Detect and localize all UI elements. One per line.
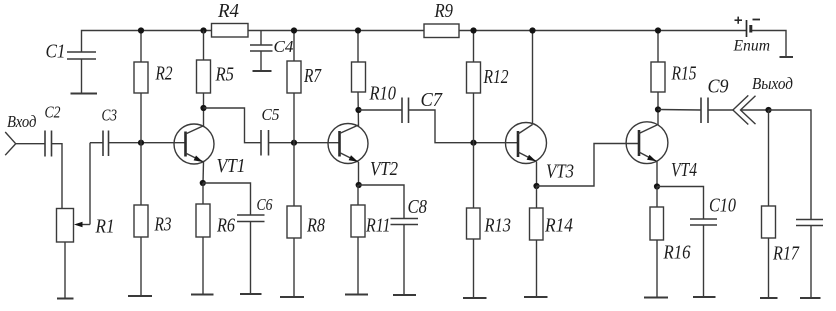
capacitor C5 xyxy=(261,105,280,156)
capacitor C3 xyxy=(102,106,118,157)
capacitor C7 xyxy=(402,89,443,123)
ground R11 xyxy=(345,294,368,296)
ground R6 xyxy=(191,294,214,296)
wire VT3 emitter to VT4 base xyxy=(537,144,640,187)
node VT3 emitter xyxy=(533,183,539,189)
resistor R15 xyxy=(651,31,697,126)
capacitor C2 xyxy=(45,103,61,157)
transistor VT4 xyxy=(626,122,697,181)
svg-text:R2: R2 xyxy=(155,63,173,85)
svg-text:C1: C1 xyxy=(46,41,66,63)
node VT4 collector xyxy=(655,106,661,112)
resistor R9 xyxy=(424,0,459,38)
wire battery to ground xyxy=(751,31,787,58)
node output connector xyxy=(733,74,793,125)
ground bar battery minus xyxy=(780,56,794,58)
wire connector to output node xyxy=(741,109,769,111)
node VT1 collector xyxy=(200,105,206,111)
wire top rail segment 2 xyxy=(248,30,424,32)
node rail R2 xyxy=(138,27,144,33)
wire output node to right capacitor xyxy=(769,110,812,220)
svg-text:R6: R6 xyxy=(216,215,235,237)
wire VT3 emitter xyxy=(536,162,538,187)
capacitor output right xyxy=(796,220,823,299)
node VT3 base xyxy=(470,140,476,146)
svg-text:R12: R12 xyxy=(483,66,509,88)
ground R16 xyxy=(644,297,668,299)
wire VT4 emitter to C10 xyxy=(657,187,704,220)
wire VT2 emitter to C8 xyxy=(359,185,404,219)
resistor R3 xyxy=(134,143,172,296)
node input terminal xyxy=(5,132,16,155)
wire C2 to R1 xyxy=(52,144,63,209)
resistor R17 xyxy=(762,110,800,298)
potentiometer R1 xyxy=(57,143,115,242)
svg-text:Eпит: Eпит xyxy=(733,38,770,55)
node VT2 base xyxy=(291,140,297,146)
resistor R11 xyxy=(351,185,391,295)
ground C6 xyxy=(240,293,262,295)
node rail R12 xyxy=(470,27,476,33)
svg-text:R15: R15 xyxy=(671,63,697,85)
wire C5 to VT2 base xyxy=(269,142,340,144)
svg-text:VT1: VT1 xyxy=(217,155,246,177)
wire VT2 emitter xyxy=(358,162,360,185)
resistor R16 xyxy=(650,187,691,298)
svg-text:R7: R7 xyxy=(303,65,322,87)
transistor VT3 xyxy=(506,123,575,183)
svg-text:R13: R13 xyxy=(484,215,511,237)
ground R13 xyxy=(463,297,487,299)
wire VT4 emitter xyxy=(656,162,658,187)
svg-text:Вход: Вход xyxy=(7,112,37,131)
resistor R2 xyxy=(134,31,173,143)
node VT1 emitter xyxy=(200,180,206,186)
wire VT2 collector to C7 xyxy=(359,109,403,111)
svg-text:C8: C8 xyxy=(408,196,428,218)
wire R1 to ground xyxy=(64,242,66,298)
svg-text:R14: R14 xyxy=(544,215,573,237)
capacitor C10 xyxy=(690,195,736,298)
resistor R13 xyxy=(467,143,512,298)
wire VT4 collector to C9 xyxy=(658,109,701,112)
node VT2 emitter xyxy=(356,182,362,188)
ground R3 xyxy=(128,295,152,297)
node rail R10 xyxy=(355,27,361,33)
svg-text:C2: C2 xyxy=(45,103,61,122)
capacitor C9 xyxy=(701,76,729,124)
capacitor C4 xyxy=(250,31,294,71)
svg-text:R8: R8 xyxy=(306,215,325,237)
ground R17 xyxy=(760,297,778,299)
resistor R14 xyxy=(530,186,574,297)
ground R14 xyxy=(524,296,548,298)
node rail R7 xyxy=(291,27,297,33)
svg-text:Выход: Выход xyxy=(752,74,793,93)
wire C3 to VT1 base xyxy=(109,142,186,144)
svg-text:R1: R1 xyxy=(95,216,115,238)
wire VT3 collector to rail xyxy=(532,31,534,125)
wire VT1 collector to C5 xyxy=(204,108,262,143)
svg-text:R16: R16 xyxy=(663,242,691,264)
resistor R5 xyxy=(197,31,235,127)
node rail R15 xyxy=(655,27,661,33)
svg-text:C3: C3 xyxy=(102,106,118,125)
ground R1 xyxy=(57,298,74,300)
svg-text:VT3: VT3 xyxy=(546,161,574,183)
transistor VT1 xyxy=(174,124,246,177)
wire VT1 emitter to C6 xyxy=(203,183,251,215)
wire VT1 emitter xyxy=(202,162,205,183)
resistor R7 xyxy=(287,31,322,143)
wire C7 to VT3 base xyxy=(409,110,519,143)
svg-text:C4: C4 xyxy=(274,37,294,56)
svg-text:R17: R17 xyxy=(772,243,800,265)
svg-text:R10: R10 xyxy=(369,83,396,105)
battery Eпит xyxy=(733,17,770,55)
svg-text:C6: C6 xyxy=(257,195,273,214)
svg-text:R9: R9 xyxy=(434,0,453,22)
resistor R8 xyxy=(287,143,325,297)
node output xyxy=(765,107,771,113)
svg-text:C10: C10 xyxy=(709,195,736,217)
node VT4 emitter xyxy=(654,183,660,189)
node VT2 collector xyxy=(355,107,361,113)
wire top rail segment 1 xyxy=(82,31,212,53)
wire input to C2 xyxy=(16,143,45,145)
capacitor C1 xyxy=(46,41,97,94)
resistor R6 xyxy=(196,183,235,295)
svg-text:C9: C9 xyxy=(708,76,729,98)
ground R8 xyxy=(280,296,304,298)
svg-text:C5: C5 xyxy=(262,105,280,124)
svg-text:R3: R3 xyxy=(154,214,172,236)
svg-text:R4: R4 xyxy=(217,0,239,22)
resistor R12 xyxy=(467,31,509,143)
node rail R5 xyxy=(200,27,206,33)
svg-text:VT4: VT4 xyxy=(671,159,697,181)
capacitor C8 xyxy=(391,196,428,295)
ground right capacitor xyxy=(800,297,821,299)
wire R1 wiper to C3 xyxy=(90,142,103,144)
svg-text:C7: C7 xyxy=(421,89,443,111)
transistor VT2 xyxy=(328,124,398,181)
ground C1 xyxy=(71,93,98,95)
ground C10 xyxy=(693,296,716,298)
wire C9 to output connector xyxy=(708,109,733,111)
ground C4 xyxy=(253,70,272,72)
node rail VT3 xyxy=(529,27,535,33)
wire top rail segment 3 xyxy=(459,30,746,32)
capacitor C6 xyxy=(237,195,273,294)
svg-text:R5: R5 xyxy=(215,64,234,86)
node VT1 base xyxy=(138,140,144,146)
resistor R4 xyxy=(212,0,249,37)
resistor R10 xyxy=(352,31,397,127)
svg-text:VT2: VT2 xyxy=(370,158,398,180)
ground C8 xyxy=(393,294,416,296)
svg-text:R11: R11 xyxy=(365,215,390,237)
